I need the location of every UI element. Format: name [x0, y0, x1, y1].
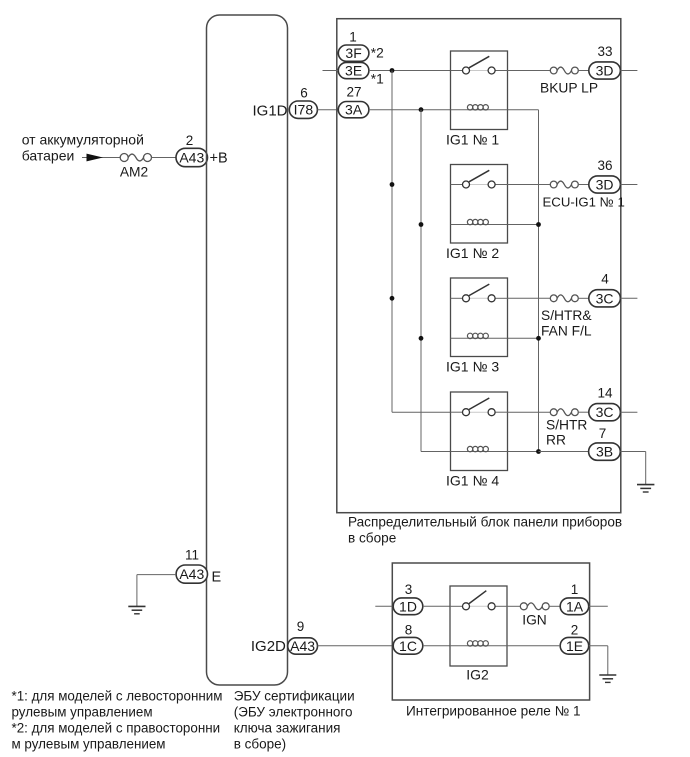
label IG1 № 1 — [446, 131, 499, 147]
svg-text:6: 6 — [300, 86, 308, 101]
junction: switch bus top — [390, 68, 395, 73]
svg-text:3D: 3D — [596, 63, 614, 79]
svg-text:*1: для моделей с левосторонни: *1: для моделей с левосторонним — [12, 689, 223, 704]
wire: fuse to 3D — [578, 70, 589, 72]
connector A43 pin IG2D — [288, 638, 318, 654]
connector 3B — [589, 443, 621, 460]
connector 3C — [589, 404, 621, 421]
junction: coil bus at relay 2 — [419, 222, 424, 227]
junction: switch bus at relay 3 — [390, 296, 395, 301]
wire: fuse to 3C — [578, 411, 589, 413]
pin 36 label — [597, 158, 612, 173]
wire: relay2 coil out — [508, 224, 539, 226]
wire: stub left of 3E — [323, 70, 339, 72]
wire: switch feed bus (vertical) — [391, 71, 393, 413]
fuse for ECU-IG1 № 1 — [550, 181, 578, 188]
svg-text:1: 1 — [349, 29, 357, 44]
pin 6 label — [300, 86, 308, 101]
svg-text:S/HTR&: S/HTR& — [541, 308, 592, 323]
svg-text:*2: *2 — [371, 46, 384, 61]
wire: relay to fuse at 3D pin 33 — [508, 70, 551, 72]
svg-text:27: 27 — [346, 85, 361, 100]
junction: return bus at relay 2 — [536, 222, 541, 227]
connector 1A — [560, 598, 589, 615]
pin 4 label — [601, 272, 609, 287]
svg-text:*2: для моделей с правосторонн: *2: для моделей с правосторонни — [12, 721, 221, 736]
note *2 marker — [371, 46, 384, 61]
connector 1D — [393, 598, 423, 615]
net label S/HTR& FAN F/L — [541, 308, 592, 338]
pin 3 label — [405, 582, 413, 597]
wire: IG2 switch to fuse IGN — [507, 605, 520, 607]
svg-text:A43: A43 — [290, 638, 315, 654]
svg-text:3C: 3C — [596, 290, 614, 306]
wire: stub right of 3C — [620, 411, 637, 413]
connector A43 pin +B — [176, 148, 208, 166]
svg-text:RR: RR — [546, 433, 566, 448]
relay IG1 No.2 — [451, 165, 508, 244]
connector 3C — [589, 290, 621, 307]
svg-text:3: 3 — [405, 582, 413, 597]
relay IG1 No.4 — [451, 392, 508, 471]
svg-text:Распределительный блок панели: Распределительный блок панели приборов — [348, 515, 622, 530]
svg-text:1E: 1E — [566, 638, 583, 654]
svg-text:11: 11 — [185, 548, 199, 563]
fuse AM2 — [120, 154, 152, 180]
label IG1 № 4 — [446, 472, 499, 488]
fuse IGN — [520, 603, 549, 628]
svg-text:2: 2 — [186, 133, 194, 148]
svg-text:от аккумуляторной: от аккумуляторной — [22, 132, 144, 148]
pin 8 label — [405, 623, 413, 638]
wire: 1E to ground — [589, 646, 608, 675]
svg-text:8: 8 — [405, 623, 413, 638]
svg-text:IGN: IGN — [522, 613, 547, 628]
pin name +B — [210, 151, 228, 167]
wire: fuse to 3D — [578, 184, 589, 186]
pin 7 label — [599, 426, 607, 441]
pin 1 label — [349, 29, 357, 44]
note *2 footnote — [12, 721, 221, 752]
connector 3D — [589, 176, 621, 193]
wire: stub right of 3C — [620, 297, 637, 299]
svg-text:1: 1 — [571, 582, 579, 597]
svg-text:AM2: AM2 — [120, 165, 148, 180]
pin 14 label — [597, 386, 613, 401]
junction: return bus at relay 3 — [536, 336, 541, 341]
pin 2 label — [186, 133, 194, 148]
connector 1E — [560, 637, 589, 654]
pin name IG2D — [251, 638, 286, 655]
relay IG2 — [450, 586, 507, 666]
junction: coil bus top — [419, 107, 424, 112]
net label ECU-IG1 № 1 — [543, 194, 625, 209]
wire: IG2 coil to 1E — [507, 645, 560, 647]
svg-text:S/HTR: S/HTR — [546, 417, 587, 432]
note *1 marker — [371, 71, 384, 86]
svg-text:+B: +B — [210, 151, 228, 167]
connector 3F — [338, 45, 369, 61]
pin 27 label — [346, 85, 361, 100]
label: ЭБУ сертификации (ЭБУ электронного ключа зажигания в сборе) — [234, 689, 355, 752]
svg-text:(ЭБУ электронного: (ЭБУ электронного — [234, 705, 353, 720]
pin 9 label — [297, 619, 305, 634]
pin name IG1D — [252, 102, 287, 119]
svg-text:3F: 3F — [345, 45, 361, 61]
svg-text:1A: 1A — [566, 598, 584, 614]
svg-text:1D: 1D — [399, 598, 417, 614]
svg-text:A43: A43 — [179, 150, 204, 166]
svg-text:33: 33 — [597, 44, 612, 59]
pin 33 label — [597, 44, 612, 59]
svg-text:3D: 3D — [596, 177, 614, 193]
ground (ECU E) — [128, 606, 145, 613]
svg-text:м рулевым управлением: м рулевым управлением — [12, 737, 166, 752]
wire: relay4 coil out — [508, 451, 539, 453]
connector A43 pin E — [176, 565, 207, 583]
wire: coil feed bus (vertical) — [420, 110, 422, 452]
wire: stub left of 1D — [375, 605, 393, 607]
svg-text:I78: I78 — [294, 102, 314, 118]
wire: 1D to relay IG2 — [423, 605, 450, 607]
svg-text:3E: 3E — [345, 63, 362, 79]
svg-text:IG1 № 4: IG1 № 4 — [446, 472, 499, 488]
svg-text:в сборе: в сборе — [348, 531, 396, 546]
svg-text:E: E — [212, 570, 222, 586]
pin 2 label (1E) — [571, 623, 579, 638]
connector 3A — [338, 102, 369, 118]
label IG1 № 3 — [446, 358, 499, 374]
junction: switch bus at relay 2 — [390, 182, 395, 187]
net label BKUP LP — [540, 80, 598, 95]
svg-text:7: 7 — [599, 426, 607, 441]
svg-text:1C: 1C — [399, 638, 417, 654]
wire: stub right of 1A — [589, 605, 608, 607]
svg-text:IG2D: IG2D — [251, 638, 286, 655]
fuse for BKUP LP — [550, 67, 578, 74]
svg-text:BKUP LP: BKUP LP — [540, 80, 598, 95]
junction: coil bus at relay 3 — [419, 336, 424, 341]
pin 11 label — [185, 548, 199, 563]
wire: stub right of 3D — [620, 184, 637, 186]
svg-text:3B: 3B — [596, 444, 613, 460]
svg-text:3A: 3A — [345, 102, 363, 118]
connector 3E — [338, 62, 369, 78]
svg-text:4: 4 — [601, 272, 609, 287]
label IG2 — [466, 667, 489, 683]
svg-text:FAN F/L: FAN F/L — [541, 323, 592, 338]
svg-text:36: 36 — [597, 158, 612, 173]
wire: relay1 coil out to return bus — [508, 109, 539, 111]
relay IG1 No.1 — [451, 51, 508, 130]
label IG1 № 2 — [446, 245, 499, 261]
label: Распределительный блок панели приборов в сборе — [348, 515, 622, 546]
svg-text:ECU-IG1 № 1: ECU-IG1 № 1 — [543, 194, 625, 209]
svg-text:IG1 № 3: IG1 № 3 — [446, 358, 499, 374]
label: Интегрированное реле № 1 — [406, 704, 581, 719]
svg-text:в сборе): в сборе) — [234, 737, 286, 752]
wire: 3B to ground — [620, 452, 645, 485]
fuse for S/HTR — [550, 409, 578, 416]
svg-text:A43: A43 — [179, 566, 204, 582]
wire: fuse IGN to 1A — [549, 605, 560, 607]
wire: relay4 coil return to 3B — [539, 451, 589, 453]
net label S/HTR RR — [546, 417, 587, 447]
pin name E — [212, 570, 222, 586]
ground (junction block) — [637, 485, 654, 492]
relay IG1 No.3 — [451, 278, 508, 357]
svg-text:IG1 № 1: IG1 № 1 — [446, 131, 499, 147]
wire: 3A to relay IG1 No.1 coil — [369, 109, 451, 111]
svg-text:IG1 № 2: IG1 № 2 — [446, 245, 499, 261]
svg-text:14: 14 — [597, 386, 613, 401]
wire: coil return bus (vertical) — [538, 110, 540, 452]
svg-text:3C: 3C — [596, 404, 614, 420]
svg-text:9: 9 — [297, 619, 305, 634]
svg-text:IG2: IG2 — [466, 667, 489, 683]
wire: 1C lead into IG2 coil — [423, 645, 450, 647]
wire: E to ground — [137, 575, 176, 607]
wire: relay3 coil out — [508, 337, 539, 339]
wire: IG2D to 1C — [318, 645, 394, 647]
wire: relay to fuse at 3C pin 14 — [508, 411, 551, 413]
wire: relay to fuse at 3D pin 36 — [508, 184, 551, 186]
wire: relay to fuse at 3C pin 4 — [508, 297, 551, 299]
junction: return bus at relay 4 — [536, 449, 541, 454]
wire: coil bus to relay IG1 No.4 — [421, 451, 451, 453]
svg-text:батареи: батареи — [22, 148, 75, 164]
svg-text:Интегрированное реле № 1: Интегрированное реле № 1 — [406, 704, 581, 719]
ground (integrated relay) — [599, 675, 616, 682]
svg-text:2: 2 — [571, 623, 579, 638]
wire: fuse to 3C — [578, 297, 589, 299]
wire: AM2 to A43 — [152, 157, 177, 159]
svg-text:ключа зажигания: ключа зажигания — [234, 721, 341, 736]
wire: switch bus to relay IG1 No.4 — [392, 411, 451, 413]
wire: stub right of 3D — [620, 70, 637, 72]
connector 1C — [393, 637, 423, 654]
node: from battery (от аккумуляторной батареи) — [22, 132, 144, 164]
wire: battery feed with arrow — [82, 154, 121, 162]
svg-text:ЭБУ сертификации: ЭБУ сертификации — [234, 689, 355, 704]
connector 3D — [589, 62, 621, 79]
wire: 3E to relay IG1 No.1 switch — [369, 70, 451, 72]
fuse for S/HTR& — [550, 295, 578, 302]
op-amp n/a ECU certification box (ЭБУ сертификации) — [207, 15, 288, 685]
integrated relay box (Интегрированное реле № 1) — [392, 563, 589, 700]
wire: I78 to 3A — [317, 109, 338, 111]
svg-text:*1: *1 — [371, 71, 384, 86]
note *1 footnote — [12, 689, 223, 720]
connector I78 pin IG1D — [289, 101, 317, 118]
svg-text:рулевым управлением: рулевым управлением — [12, 705, 153, 720]
svg-text:IG1D: IG1D — [252, 102, 287, 119]
pin 1 label (1A) — [571, 582, 579, 597]
instrument panel junction block box (Распределительный блок панели приборов) — [337, 19, 621, 513]
